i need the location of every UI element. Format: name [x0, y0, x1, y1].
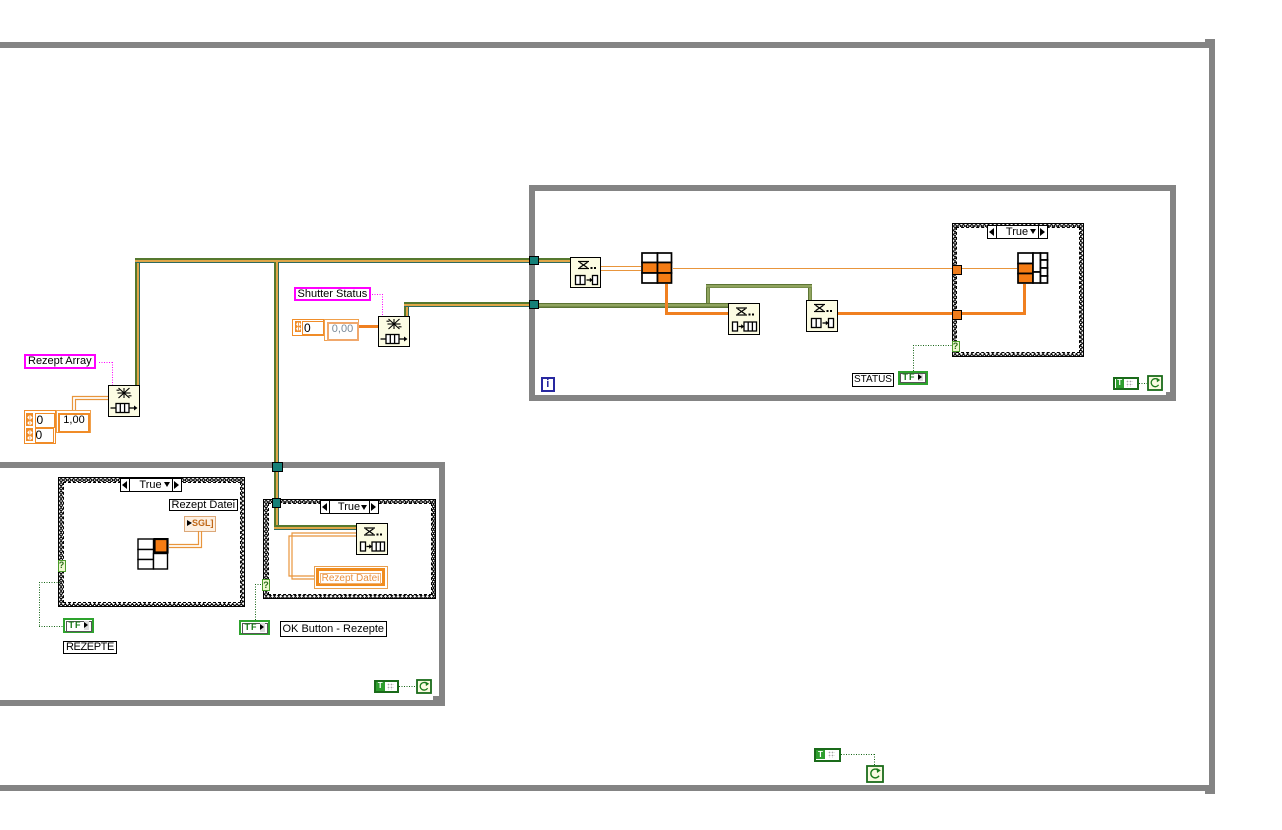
- enqueue element U2 (inner loop): [728, 303, 760, 335]
- 2D array wire matrix to SGL: [168, 529, 204, 550]
- case2 ? tunnel: [262, 579, 270, 591]
- outer while loop top border: [0, 42, 1215, 48]
- case1 True header: [120, 478, 182, 493]
- case3 True header: [987, 225, 1048, 239]
- orange wire inside case3: [962, 312, 1027, 315]
- inner while loop border: [529, 185, 1176, 191]
- dequeue element U3 (inner loop): [806, 300, 838, 332]
- outer while loop right border: [1209, 42, 1215, 791]
- T constant inner loop: [1113, 377, 1139, 391]
- orange wire: dequeue3 out to case3: [838, 312, 952, 315]
- 2D array wire to obtain queue A: [70, 394, 110, 412]
- T constant bottom loop: [374, 680, 400, 694]
- index array grid G1: [641, 252, 673, 284]
- queue wire: branch down to bottom loop: [274, 262, 279, 462]
- label Shutter Status: [294, 287, 372, 302]
- green wire over horizontal: [706, 284, 813, 289]
- shutter numeric control: index 0: [292, 319, 324, 337]
- STATUS label: [852, 373, 895, 387]
- bottom-left while loop borders: [0, 462, 445, 468]
- queue wire: main horizontal to inner loop: [135, 258, 570, 263]
- orange wire: grid1 down: [665, 284, 668, 315]
- outer loop corner tab top-right: [1205, 39, 1215, 42]
- green wire main horizontal in inner loop: [539, 303, 728, 308]
- T constant outer loop: [814, 748, 841, 762]
- matrix icon case1: [137, 538, 169, 570]
- thin orange inside case3 to grid2: [962, 268, 1018, 269]
- replace array subset grid G2: [1017, 252, 1049, 284]
- Rezept Datei orange control: [314, 566, 388, 590]
- loop condition terminal bottom loop: [416, 679, 432, 694]
- queue wire: shutter obtain queue vertical: [404, 302, 409, 316]
- 2D array constant (indexes 0,0): [24, 410, 56, 444]
- label Rezept Array: [24, 354, 96, 369]
- obtain queue U_A: [108, 385, 140, 417]
- enqueue element U4 (case2): [356, 523, 388, 555]
- orange tunnels on case3: [952, 265, 962, 275]
- outer loop corner tab bottom-right: [1205, 791, 1215, 794]
- queue wire: between loop tunnel and case2 tunnel: [274, 472, 279, 498]
- SGL constant: [184, 516, 216, 532]
- tunnels on inner loop left border: [529, 256, 539, 266]
- tunnel on case2 corner: [272, 498, 282, 508]
- tunnel on bottom-left loop top border: [272, 462, 284, 473]
- queue wire: inside case2 down: [274, 507, 279, 530]
- loop condition terminal inner loop: [1147, 375, 1163, 391]
- STATUS TF terminal: [898, 371, 928, 385]
- case1 ? tunnel: [58, 560, 66, 572]
- green wire branch up: [706, 288, 711, 304]
- REZEPTE TF terminal: [63, 618, 94, 633]
- dotted wire case1: [39, 582, 60, 583]
- case structure 3 (in inner loop): [952, 223, 1085, 358]
- case structure 2 (OK Button - Rezepte): [263, 499, 436, 600]
- case3 ? tunnel: [952, 341, 960, 352]
- wire dotted magenta shutter: [372, 294, 383, 295]
- OK Button - Rezepte label: [280, 621, 388, 637]
- 2D array double wire: node1 out to grid1: [601, 266, 642, 267]
- element 1,00: [56, 410, 91, 433]
- orange wire: to enqueue2: [665, 312, 728, 315]
- queue wire: inside case2 horizontal to enqueue: [274, 525, 356, 530]
- dotted wire case3 ? to STATUS TF: [913, 345, 952, 346]
- case1 Rezept Datei label: [169, 499, 239, 512]
- 2D array wire case2: [288, 531, 358, 581]
- OK Button TF terminal: [239, 620, 270, 635]
- bottom-left loop corner tab: [433, 696, 445, 700]
- thin orange wire: grid1 to case3: [673, 268, 952, 269]
- queue wire: vertical from Obtain Queue A up: [135, 262, 140, 385]
- wire to obtain queue B: [359, 325, 378, 328]
- case2 True header: [320, 500, 379, 514]
- orange wire inside case3 vertical up to grid2: [1023, 284, 1026, 316]
- loop condition terminal outer loop: [866, 765, 884, 783]
- shutter element 0,00: [324, 319, 359, 341]
- case structure 1 (bottom-left, REZEPTE): [58, 477, 245, 607]
- dequeue element U1 (inner loop): [570, 257, 602, 289]
- spinner arrows: [26, 413, 34, 442]
- dotted wire case2: [255, 584, 263, 585]
- i terminal: [541, 377, 556, 392]
- green wire down into dequeue 2: [808, 288, 813, 300]
- outer while loop bottom border: [0, 785, 1215, 792]
- queue wire: shutter horizontal to inner loop lower tunnel: [404, 302, 539, 307]
- wire dotted magenta from Rezept Array: [99, 362, 113, 363]
- obtain queue U_B: [378, 316, 410, 348]
- inner loop corner tab bottom-right: [1166, 392, 1176, 395]
- REZEPTE label: [63, 641, 117, 654]
